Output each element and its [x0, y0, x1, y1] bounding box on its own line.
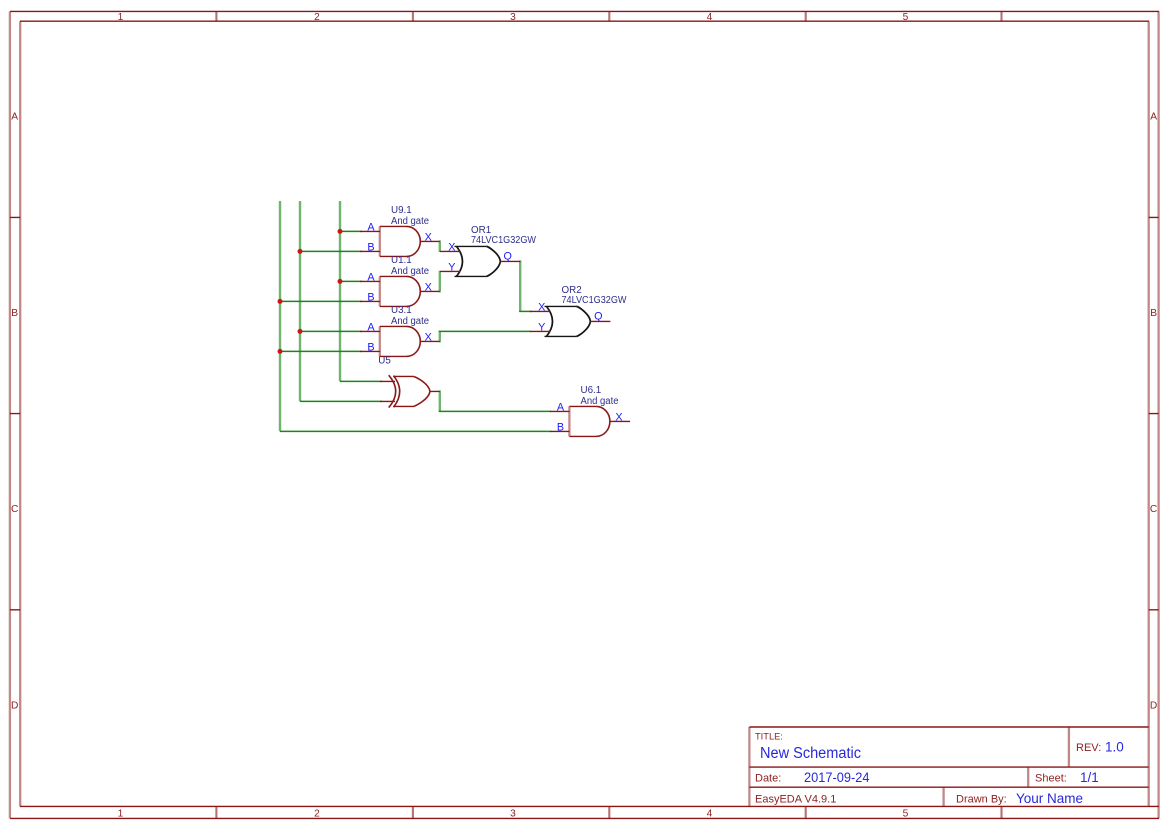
junction at U9.1 B	[298, 249, 303, 254]
svg-text:And gate: And gate	[581, 396, 620, 407]
svg-text:1.0: 1.0	[1105, 740, 1124, 755]
title block	[749, 727, 1148, 806]
svg-text:B: B	[367, 342, 374, 354]
svg-text:U5: U5	[378, 355, 391, 366]
wire U9.1 pin B branch	[300, 250, 362, 252]
svg-text:U1.1: U1.1	[391, 255, 412, 266]
svg-text:U3.1: U3.1	[391, 305, 412, 316]
pin labels U6.1	[557, 402, 623, 434]
pin labels U9.1	[367, 222, 431, 254]
svg-text:2: 2	[314, 12, 320, 23]
svg-text:B: B	[367, 292, 374, 304]
svg-text:TITLE:: TITLE:	[755, 732, 783, 742]
svg-text:Q: Q	[594, 310, 602, 322]
and-gate U1.1	[360, 276, 440, 306]
xor-gate U5	[380, 375, 440, 407]
svg-text:B: B	[11, 308, 18, 319]
svg-text:5: 5	[903, 12, 909, 23]
junction at U3.1 B	[278, 349, 283, 354]
wire net1 vertical bus	[279, 201, 281, 431]
or-gate OR1	[455, 246, 501, 276]
pin labels OR2	[538, 302, 602, 334]
junction at U1.1 B	[278, 299, 283, 304]
svg-text:REV:: REV:	[1076, 742, 1101, 754]
wire U9.1 pin A branch	[340, 230, 362, 232]
wire U3.1 pin A branch	[300, 330, 362, 332]
svg-text:X: X	[615, 411, 622, 423]
svg-text:Sheet:: Sheet:	[1035, 773, 1067, 785]
svg-text:Your Name: Your Name	[1016, 791, 1083, 806]
wire U1.1 pin B branch	[280, 300, 362, 302]
wire U3.1 pin B branch	[280, 350, 362, 352]
and-gate U9.1	[360, 226, 440, 256]
svg-text:4: 4	[707, 808, 713, 819]
svg-text:A: A	[11, 112, 18, 123]
and-gate U6.1	[550, 406, 630, 436]
svg-text:Y: Y	[448, 262, 455, 274]
svg-text:And gate: And gate	[391, 266, 430, 277]
svg-text:A: A	[1150, 112, 1157, 123]
wire U1.1 X out to OR1 Y	[439, 271, 441, 293]
wire XOR U5 pin B feed	[300, 400, 382, 402]
OR2 pin stubs	[530, 311, 611, 331]
wire U3.1 X out to OR2 Y vertical	[439, 331, 441, 343]
svg-text:A: A	[367, 222, 375, 234]
svg-text:Drawn By:: Drawn By:	[956, 794, 1007, 806]
svg-text:2017-09-24: 2017-09-24	[804, 770, 870, 785]
svg-text:1: 1	[118, 12, 124, 23]
svg-text:X: X	[425, 281, 432, 293]
pin labels U1.1	[367, 272, 431, 304]
svg-text:Q: Q	[503, 251, 511, 263]
svg-text:New Schematic: New Schematic	[760, 745, 861, 762]
svg-text:1: 1	[118, 808, 124, 819]
wire U3.1 X out to OR2 Y horizontal	[439, 330, 531, 332]
svg-text:U9.1: U9.1	[391, 205, 412, 216]
svg-text:5: 5	[903, 808, 909, 819]
svg-text:And gate: And gate	[391, 216, 430, 227]
svg-text:B: B	[367, 242, 374, 254]
OR1 pin stubs	[440, 251, 521, 271]
svg-text:C: C	[11, 504, 18, 515]
wire XOR U5 pin A feed	[340, 380, 382, 382]
svg-text:X: X	[448, 242, 455, 254]
wire U9.1 X out to OR1 X	[439, 240, 441, 252]
junction at U1.1 A	[338, 279, 343, 284]
svg-text:2: 2	[314, 808, 320, 819]
svg-text:D: D	[11, 700, 18, 711]
junction at U3.1 A	[298, 329, 303, 334]
pin labels U3.1	[367, 322, 431, 354]
svg-text:74LVC1G32GW: 74LVC1G32GW	[471, 235, 537, 246]
svg-text:1/1: 1/1	[1080, 770, 1099, 785]
svg-text:A: A	[367, 322, 375, 334]
svg-text:EasyEDA V4.9.1: EasyEDA V4.9.1	[755, 794, 836, 806]
wire net3 vertical bus	[339, 201, 341, 381]
wire U6.1 pin B feed	[280, 430, 551, 432]
and-gate U3.1	[360, 326, 440, 356]
wire U1.1 pin A branch	[340, 280, 362, 282]
or-gate OR2	[545, 306, 591, 336]
svg-text:3: 3	[510, 808, 516, 819]
svg-text:Date:: Date:	[755, 773, 781, 785]
wire OR1 Q to OR2 X vertical	[519, 260, 521, 312]
svg-text:X: X	[538, 302, 545, 314]
svg-text:A: A	[557, 402, 565, 414]
wire OR1 Q to OR2 X horizontal	[519, 310, 532, 312]
svg-text:B: B	[1150, 308, 1157, 319]
svg-text:A: A	[367, 272, 375, 284]
svg-text:B: B	[557, 422, 564, 434]
svg-text:74LVC1G32GW: 74LVC1G32GW	[562, 295, 628, 306]
svg-text:And gate: And gate	[391, 316, 430, 327]
svg-text:Y: Y	[538, 322, 545, 334]
svg-text:3: 3	[510, 12, 516, 23]
pin labels OR1	[448, 242, 512, 274]
junction at U9.1 A	[338, 229, 343, 234]
svg-text:X: X	[425, 331, 432, 343]
wire XOR U5 out to U6.1 A vertical	[439, 390, 441, 412]
wire net2 vertical bus	[299, 201, 301, 401]
svg-text:U6.1: U6.1	[581, 385, 602, 396]
svg-text:X: X	[425, 231, 432, 243]
svg-text:C: C	[1150, 504, 1157, 515]
wire XOR U5 out to U6.1 A horizontal	[439, 410, 551, 412]
svg-text:D: D	[1150, 700, 1157, 711]
svg-text:4: 4	[707, 12, 713, 23]
